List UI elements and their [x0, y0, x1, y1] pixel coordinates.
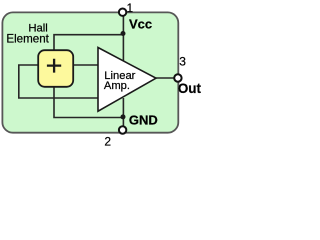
svg-text:Element: Element	[6, 32, 49, 45]
wire Hall right output to amp upper input	[73, 64, 97, 66]
text layer	[6, 3, 201, 149]
pin 2 terminal circle	[119, 126, 126, 133]
pin 1 terminal circle	[119, 9, 126, 16]
wire Hall left output: left, down, to amp lower input	[19, 65, 98, 98]
wire Vcc vertical: pin1 down to amp top edge	[122, 14, 124, 61]
pin 3 terminal circle	[174, 74, 181, 81]
node Vcc junction	[121, 31, 126, 36]
node GND junction	[121, 114, 126, 119]
svg-text:Amp.: Amp.	[104, 80, 130, 92]
IC body (rounded rectangle)	[2, 12, 178, 132]
wire amp output to pin 3	[156, 77, 175, 79]
wire Hall bottom to GND node	[54, 87, 123, 118]
svg-text:Out: Out	[178, 81, 202, 96]
Hall element box	[38, 50, 73, 87]
svg-text:3: 3	[179, 55, 186, 69]
plus symbol in Hall element	[47, 59, 61, 73]
op-amp triangle (Linear Amp.)	[98, 48, 156, 112]
svg-text:Vcc: Vcc	[129, 16, 152, 31]
svg-text:2: 2	[104, 135, 111, 149]
svg-text:GND: GND	[129, 112, 158, 127]
svg-text:1: 1	[127, 3, 133, 15]
wire amp ground: from amp bottom edge down to GND node	[122, 98, 124, 127]
wire Vcc to Hall element top	[54, 35, 123, 52]
